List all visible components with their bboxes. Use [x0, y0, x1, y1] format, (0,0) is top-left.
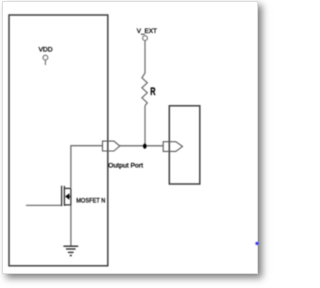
blue marker dot — [255, 241, 259, 245]
wire source to ground — [70, 205, 72, 246]
svg-text:Output Port: Output Port — [108, 162, 143, 169]
transistor Q1 channel bar — [63, 186, 65, 206]
transistor Q1 gate bar — [61, 186, 63, 206]
port symbol input (right) — [163, 142, 182, 152]
svg-text:MOSFET N: MOSFET N — [76, 197, 105, 204]
svg-text:R: R — [150, 86, 155, 98]
wire resistor to node — [144, 106, 146, 145]
ground — [63, 246, 78, 255]
wire MOSFET drain to output port — [71, 146, 103, 188]
transistor Q1 source stub — [64, 204, 71, 206]
wire gate — [26, 204, 62, 206]
svg-text:VDD: VDD — [38, 46, 52, 53]
power symbol VDD — [43, 55, 48, 65]
port symbol Output Port — [103, 141, 120, 151]
transistor Q1 drain stub — [64, 187, 71, 189]
block outline U1 (left device box) — [9, 15, 108, 266]
power symbol V_EXT — [143, 36, 148, 41]
transistor Q1 right lead (drain-source vertical) — [70, 188, 72, 205]
svg-text:V_EXT: V_EXT — [137, 28, 157, 35]
resistor R — [142, 73, 147, 106]
wire V_EXT to resistor — [144, 41, 146, 74]
block outline U2 (right device box) — [169, 106, 200, 184]
wire output net (horizontal) — [119, 145, 163, 147]
transistor Q1 bulk arrow — [65, 193, 71, 199]
node junction dot — [143, 144, 147, 149]
